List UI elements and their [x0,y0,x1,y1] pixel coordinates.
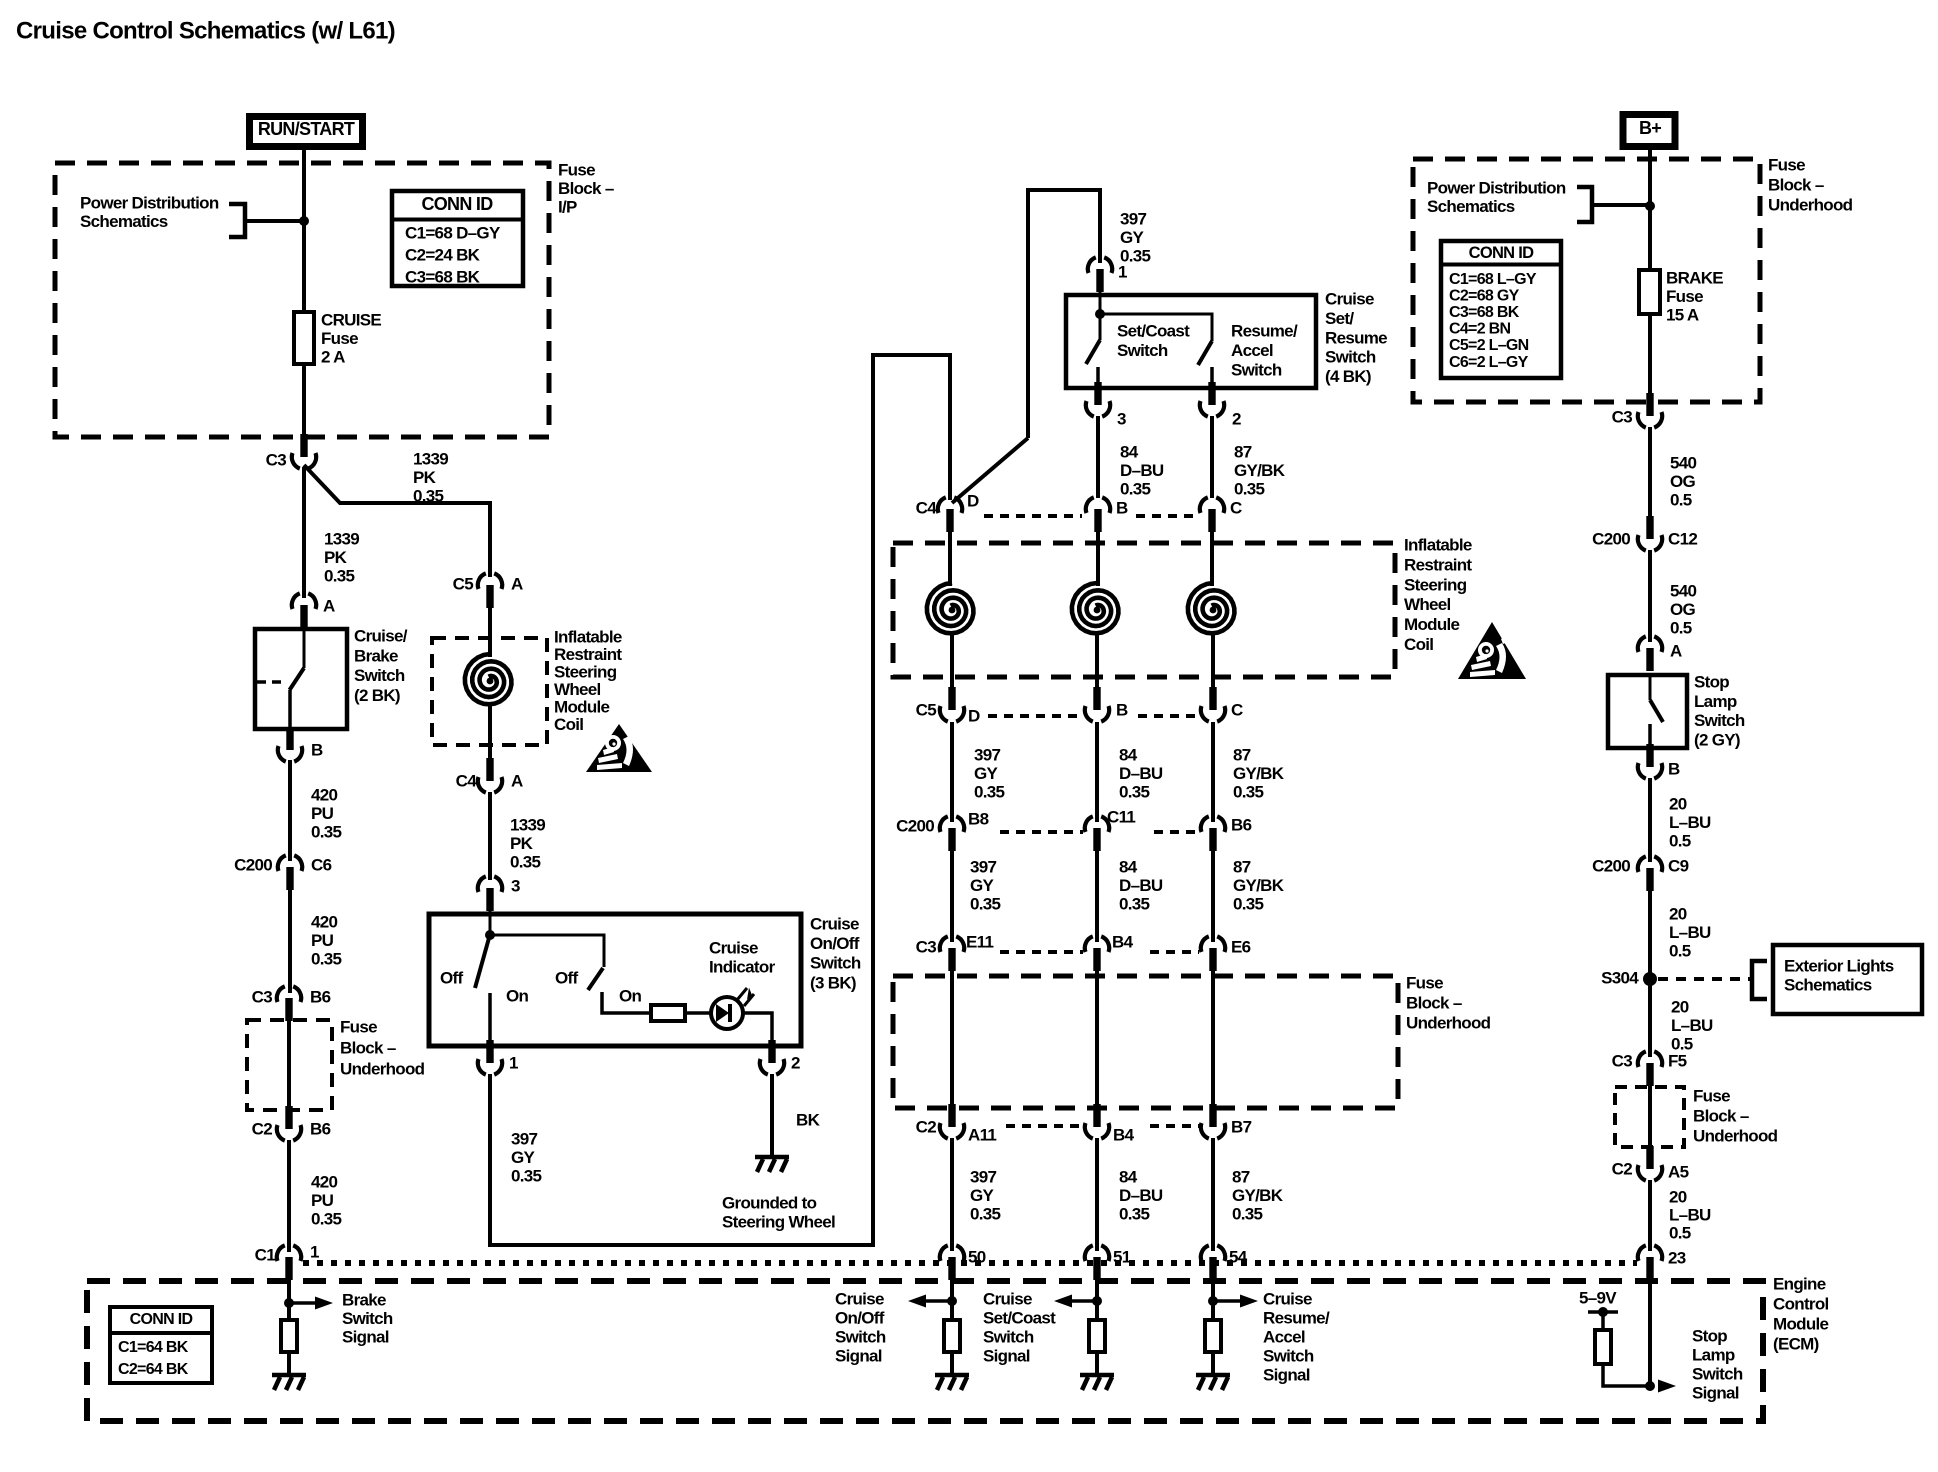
connector C200 C6 [278,855,302,890]
connector pin 23 ECM [1638,1245,1662,1280]
wires through fuse block mid [950,970,954,1104]
svg-text:C200: C200 [234,856,272,875]
svg-text:5–9V: 5–9V [1579,1289,1617,1308]
svg-text:C9: C9 [1668,857,1689,876]
box Exterior Lights Schematics [1773,945,1922,1014]
connector A cruise/brake switch [292,593,316,628]
connector pin 2 cruise on/off switch [760,1040,784,1075]
svg-text:CONN ID: CONN ID [421,194,493,214]
svg-text:420: 420 [311,913,338,932]
svg-text:C1=68 L–GY: C1=68 L–GY [1449,271,1537,288]
connector C3 B6 [277,986,301,1021]
connector C3 (fuse block I/P) [292,434,316,469]
svg-text:Control: Control [1773,1295,1829,1314]
svg-text:Fuse: Fuse [1666,287,1703,306]
svg-text:0.35: 0.35 [1232,1205,1263,1224]
wire resistor to ground [287,1352,291,1374]
wire set/coast feed upper [1028,190,1100,438]
wires row3 down [950,850,954,942]
svg-text:C3=68 BK: C3=68 BK [1449,304,1520,321]
svg-text:Signal: Signal [1692,1384,1739,1403]
svg-text:C3: C3 [916,938,937,957]
svg-text:B4: B4 [1113,1126,1135,1145]
svg-text:D–BU: D–BU [1119,764,1163,783]
svg-text:Resume/: Resume/ [1263,1309,1330,1328]
svg-text:1: 1 [509,1054,518,1073]
splice S304 [1643,972,1657,986]
svg-text:Restraint: Restraint [554,645,622,664]
svg-text:C4: C4 [456,772,478,791]
junction dot set/resume [1099,290,1102,314]
svg-text:GY: GY [511,1148,536,1167]
svg-text:Cruise: Cruise [983,1290,1032,1309]
svg-text:(2 BK): (2 BK) [354,686,400,705]
wire C200 to C3/B6 [288,888,292,993]
svg-text:Cruise: Cruise [835,1290,884,1309]
wire C3 diagonal branch [304,465,490,577]
svg-text:1: 1 [310,1243,319,1262]
wire bracket right [1592,203,1650,207]
connector pin 54 ECM [1201,1245,1225,1280]
svg-text:Switch: Switch [1694,711,1745,730]
svg-text:B: B [311,741,323,760]
svg-text:C3: C3 [252,988,273,1007]
svg-text:Cruise/: Cruise/ [354,627,408,646]
svg-text:Block –: Block – [1406,994,1462,1013]
svg-text:On/Off: On/Off [810,934,860,953]
svg-text:Switch: Switch [354,666,405,685]
svg-text:Grounded to: Grounded to [722,1194,817,1213]
svg-text:OG: OG [1670,600,1696,619]
wire B+ down to fuse [1648,150,1652,270]
svg-text:B6: B6 [1231,816,1252,835]
svg-text:0.35: 0.35 [324,567,355,586]
warning triangle (middle) [1458,622,1526,679]
table CONN ID (fuse block underhood) [1441,241,1561,378]
wires into coil box [948,531,952,586]
svg-text:1339: 1339 [324,530,359,549]
wire resistor to junction [1603,1364,1650,1386]
svg-text:0.35: 0.35 [970,1205,1001,1224]
connector C5 A [478,573,502,608]
svg-text:On/Off: On/Off [835,1309,885,1328]
resistor (cruise indicator) [651,1005,685,1021]
svg-text:Off: Off [555,969,578,988]
switch Cruise/Brake Switch (2 BK) [255,629,347,729]
svg-text:C6=2 L–GY: C6=2 L–GY [1449,354,1529,371]
svg-text:Underhood: Underhood [340,1060,425,1079]
svg-text:Fuse: Fuse [340,1018,377,1037]
svg-text:Coil: Coil [554,715,583,734]
wire C200/C9 to S304 [1648,889,1652,1057]
connector pin 3 set/coast [1086,382,1110,417]
resume/accel switch blade [1100,314,1212,341]
svg-text:50: 50 [968,1248,986,1267]
svg-text:Fuse: Fuse [1768,156,1805,175]
wire RUN/START to CRUISE fuse [302,150,306,312]
svg-text:Signal: Signal [983,1347,1030,1366]
svg-text:0.5: 0.5 [1670,619,1692,638]
svg-text:Inflatable: Inflatable [1404,536,1472,555]
svg-text:D–BU: D–BU [1119,1186,1163,1205]
ECM connector face dotted line [303,1260,1637,1266]
svg-text:87: 87 [1232,1168,1250,1187]
dashed box Fuse Block - I/P [55,163,549,437]
svg-text:C3: C3 [1612,1052,1633,1071]
svg-text:Module: Module [554,698,610,717]
svg-text:Schematics: Schematics [80,212,168,231]
svg-text:397: 397 [970,1168,997,1187]
svg-text:C1=68 D–GY: C1=68 D–GY [405,224,501,243]
svg-text:L–BU: L–BU [1669,1206,1711,1225]
svg-text:Power Distribution: Power Distribution [1427,179,1566,198]
pin 54 internals [1211,1276,1215,1320]
wire C5 into coil box [488,606,492,657]
wire pin 1 loop to steering column feed [490,355,950,1245]
svg-text:On: On [506,987,529,1006]
svg-text:B: B [1668,760,1680,779]
svg-text:OG: OG [1670,472,1696,491]
svg-text:87: 87 [1233,858,1251,877]
svg-text:Inflatable: Inflatable [554,628,622,647]
svg-text:Cruise Control Schematics (w/: Cruise Control Schematics (w/ L61) [16,18,395,45]
fuse CRUISE 2 A [294,312,314,364]
svg-text:84: 84 [1119,858,1138,877]
svg-text:420: 420 [311,1173,338,1192]
connector pin 50 ECM [940,1245,964,1280]
connector C4 A [478,758,502,793]
svg-text:C2: C2 [1612,1160,1633,1179]
svg-text:Restraint: Restraint [1404,555,1472,574]
connector C200 C12 [1638,516,1662,551]
svg-text:PU: PU [311,804,334,823]
svg-text:PU: PU [311,1191,334,1210]
svg-text:C4: C4 [916,499,938,518]
svg-text:Steering Wheel: Steering Wheel [722,1213,835,1232]
ground (grounded to steering wheel) [755,1157,789,1172]
wire coil to C4 [488,705,492,766]
power source box RUN/START [250,117,363,147]
dashed box Fuse Block - Underhood (middle) [893,976,1398,1108]
svg-text:397: 397 [1120,210,1147,229]
svg-text:23: 23 [1668,1249,1686,1268]
svg-text:Exterior Lights: Exterior Lights [1784,957,1894,976]
switch box Cruise Set/Resume Switch (4 BK) [1066,295,1316,388]
svg-text:Engine: Engine [1773,1275,1826,1294]
resistor (brake switch pull) [281,1320,297,1352]
svg-text:87: 87 [1234,443,1252,462]
svg-text:B: B [1116,499,1128,518]
connector pin 51 ECM [1085,1245,1109,1280]
svg-text:CRUISE: CRUISE [321,311,381,330]
warning triangle (left) [586,724,652,772]
svg-text:Cruise: Cruise [1263,1290,1312,1309]
connector C3 E11 [940,936,964,971]
connector C200 C9 [1638,856,1662,891]
svg-text:Signal: Signal [1263,1366,1310,1385]
svg-text:84: 84 [1119,1168,1138,1187]
connector C2 A5 [1638,1146,1662,1181]
connector B (coil) [1086,497,1110,532]
arrow Brake Switch Signal [289,1301,316,1305]
svg-text:Block –: Block – [340,1039,396,1058]
svg-text:Steering: Steering [1404,575,1467,594]
svg-text:C: C [1230,499,1242,518]
svg-text:Switch: Switch [1231,360,1282,379]
svg-text:0.35: 0.35 [311,823,342,842]
junction dot (B+) [1645,201,1655,211]
svg-text:Module: Module [1773,1315,1829,1334]
connector B (row2) [1085,687,1109,722]
svg-text:C3: C3 [266,451,287,470]
svg-text:397: 397 [970,858,997,877]
svg-text:C11: C11 [1107,808,1135,827]
svg-text:(2 GY): (2 GY) [1694,730,1740,749]
svg-text:GY/BK: GY/BK [1233,764,1285,783]
coil 1 (steering wheel module) [927,583,974,633]
svg-text:Accel: Accel [1231,341,1273,360]
svg-text:Module: Module [1404,615,1460,634]
junction dot [299,216,309,226]
svg-text:Block –: Block – [1693,1107,1749,1126]
dashed box Fuse Block - Underhood (top right) [1413,159,1760,402]
svg-text:Switch: Switch [835,1328,886,1347]
svg-text:Steering: Steering [554,663,617,682]
connector B stop lamp switch [1638,744,1662,779]
svg-text:L–BU: L–BU [1671,1016,1713,1035]
svg-text:C2: C2 [916,1118,937,1137]
svg-text:397: 397 [974,746,1001,765]
svg-text:Fuse: Fuse [558,161,595,180]
connector C2 A11 [940,1104,964,1139]
svg-text:L–BU: L–BU [1669,813,1711,832]
svg-text:0.5: 0.5 [1670,491,1692,510]
svg-text:Fuse: Fuse [321,329,358,348]
svg-text:C5=2 L–GN: C5=2 L–GN [1449,337,1529,354]
svg-text:C5: C5 [453,575,474,594]
fuse BRAKE 15 A [1639,270,1660,314]
connector B cruise/brake switch [278,727,302,762]
svg-text:C4=2 BN: C4=2 BN [1449,321,1510,338]
dashed connector row C3 [1000,950,1083,954]
svg-text:(3 BK): (3 BK) [810,973,856,992]
svg-text:0.35: 0.35 [311,950,342,969]
svg-text:Switch: Switch [1117,341,1168,360]
svg-text:0.35: 0.35 [1119,895,1150,914]
dashed connector row C200 [1000,830,1083,834]
svg-text:Block –: Block – [558,179,614,198]
svg-text:Fuse: Fuse [1693,1087,1730,1106]
svg-text:3: 3 [1117,410,1126,429]
pin 51 internals [1095,1276,1099,1320]
svg-text:B8: B8 [968,810,989,829]
svg-text:Cruise: Cruise [1325,290,1374,309]
svg-text:1: 1 [1118,263,1127,282]
svg-text:PK: PK [413,468,437,487]
connector A stop lamp switch [1638,636,1662,671]
svg-text:A: A [511,575,523,594]
wire fuse down [1648,314,1652,400]
connector C (row2) [1201,687,1225,722]
svg-text:I/P: I/P [558,198,577,217]
svg-text:C3: C3 [1612,408,1633,427]
svg-text:Cruise: Cruise [709,939,758,958]
svg-text:0.5: 0.5 [1669,942,1691,961]
svg-text:A: A [511,772,523,791]
coil 2 (steering wheel module) [1072,583,1119,633]
wire C2 to C1 [287,1140,291,1252]
svg-text:S304: S304 [1601,969,1639,988]
connector C2 B6 [277,1106,301,1141]
bracket exterior lights [1752,961,1767,999]
ground (brake switch) [272,1375,306,1390]
svg-text:Switch: Switch [1263,1347,1314,1366]
svg-text:2: 2 [791,1054,800,1073]
svg-text:C5: C5 [916,701,937,720]
connector C200 C11 [1085,816,1109,851]
svg-text:84: 84 [1120,443,1139,462]
svg-text:Signal: Signal [835,1347,882,1366]
wire rail to resistor [1601,1312,1605,1330]
5-9V rail [1588,1310,1618,1314]
connector E6 [1201,936,1225,971]
wire pin 2 to ground [770,1074,774,1156]
svg-text:0.35: 0.35 [311,1210,342,1229]
svg-text:Coil: Coil [1404,635,1433,654]
svg-text:F5: F5 [1668,1052,1687,1071]
connector C200 B8 [940,816,964,851]
svg-text:3: 3 [511,877,520,896]
svg-text:PK: PK [324,548,348,567]
svg-text:540: 540 [1670,582,1697,601]
svg-text:2: 2 [1232,410,1241,429]
svg-text:20: 20 [1669,905,1687,924]
svg-text:C6: C6 [311,856,332,875]
wires coils down [950,634,954,690]
wire resistor to LED [685,1011,712,1015]
svg-text:CONN ID: CONN ID [1469,244,1535,262]
svg-text:Fuse: Fuse [1406,974,1443,993]
svg-text:GY: GY [970,1186,995,1205]
svg-text:Stop: Stop [1692,1327,1727,1346]
svg-text:Schematics: Schematics [1784,976,1872,995]
connector B4 (row) [1085,936,1109,971]
wire B to C200 [288,760,292,861]
svg-text:Switch: Switch [983,1328,1034,1347]
svg-text:Underhood: Underhood [1406,1014,1491,1033]
svg-text:B7: B7 [1231,1118,1252,1137]
resistor (stop lamp signal) [1595,1330,1611,1364]
svg-text:RUN/START: RUN/START [258,119,355,139]
svg-text:Signal: Signal [342,1328,389,1347]
svg-text:L–BU: L–BU [1669,923,1711,942]
svg-text:Set/Coast: Set/Coast [983,1309,1056,1328]
wire to indicator switch [490,935,604,967]
svg-text:On: On [619,987,642,1006]
svg-text:Wheel: Wheel [1404,595,1451,614]
svg-text:GY: GY [974,764,999,783]
connector B4 (row C2) [1085,1104,1109,1139]
svg-text:C200: C200 [1592,857,1630,876]
dashed box Fuse Block - Underhood (left) [247,1020,332,1110]
svg-text:E11: E11 [966,933,993,952]
svg-text:Off: Off [440,969,463,988]
svg-text:C12: C12 [1668,530,1697,549]
svg-text:0.35: 0.35 [1120,480,1151,499]
junction dot stop lamp signal [1645,1381,1655,1391]
svg-text:Cruise: Cruise [810,915,859,934]
svg-text:0.5: 0.5 [1669,1224,1691,1243]
svg-text:Indicator: Indicator [709,958,776,977]
svg-text:Accel: Accel [1263,1328,1305,1347]
wire pin3 to B [1096,416,1100,498]
svg-text:0.35: 0.35 [413,487,444,506]
coil (steering wheel module, left) [465,654,512,704]
svg-text:CONN ID: CONN ID [130,1311,193,1328]
wire C1 into ECM [287,1278,291,1320]
svg-text:C2: C2 [252,1120,273,1139]
svg-text:Set/: Set/ [1325,309,1354,328]
coil 3 (steering wheel module) [1188,583,1235,633]
svg-text:C1=64 BK: C1=64 BK [118,1339,189,1356]
svg-text:Switch: Switch [1692,1365,1743,1384]
svg-text:0.35: 0.35 [1233,783,1264,802]
svg-text:0.35: 0.35 [970,895,1001,914]
set/coast switch blade [1099,314,1102,340]
svg-text:(4 BK): (4 BK) [1325,367,1371,386]
connector B7 [1201,1104,1225,1139]
svg-text:0.35: 0.35 [510,853,541,872]
svg-text:15 A: 15 A [1666,306,1699,325]
connector C (coil) [1200,497,1224,532]
svg-text:A11: A11 [968,1126,996,1145]
svg-text:1339: 1339 [510,816,545,835]
connector C1 pin 1 (ECM) [277,1245,301,1280]
switch box Stop Lamp Switch (2 GY) [1608,675,1687,748]
svg-text:87: 87 [1233,746,1251,765]
svg-text:GY/BK: GY/BK [1234,461,1286,480]
svg-text:20: 20 [1671,998,1689,1017]
svg-text:A: A [323,597,335,616]
svg-text:GY: GY [970,876,995,895]
svg-text:Wheel: Wheel [554,680,601,699]
wire diagonal to C4 D [952,438,1028,503]
wires row2 down [950,722,954,822]
connector C3 F5 [1638,1051,1662,1086]
dashed connector row C5 D-B-C [988,714,1083,718]
svg-text:1339: 1339 [413,450,448,469]
wire LED to pin 2 [743,1013,772,1046]
svg-text:0.35: 0.35 [1233,895,1264,914]
svg-text:Schematics: Schematics [1427,197,1515,216]
LED cruise indicator [711,988,754,1029]
svg-text:Switch: Switch [810,954,861,973]
wire C3 to C200 [1648,427,1652,533]
svg-text:PK: PK [510,834,534,853]
svg-text:Brake: Brake [342,1291,386,1310]
power source box B+ [1623,115,1675,147]
arrow Stop Lamp Switch Signal [1658,1380,1676,1393]
svg-text:54: 54 [1229,1248,1248,1267]
switch blade 1 (off/on) [475,938,489,988]
svg-text:B+: B+ [1639,118,1661,138]
dashed box Inflatable Restraint Steering Wheel Module Coil (middle) [893,543,1395,677]
table CONN ID (ECM) [110,1307,212,1383]
svg-text:397: 397 [511,1130,538,1149]
svg-text:Stop: Stop [1694,673,1729,692]
svg-text:Brake: Brake [354,646,398,665]
dashed connector row D-B-C [984,514,1082,518]
